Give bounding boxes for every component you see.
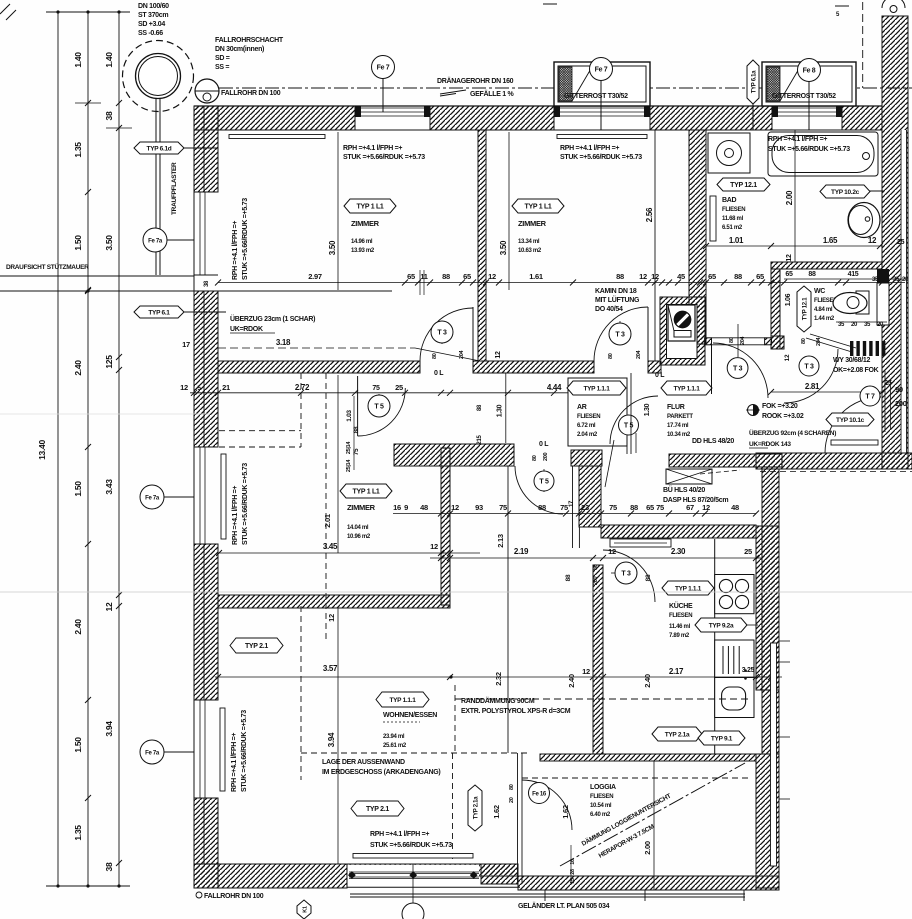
schacht stem	[155, 98, 157, 275]
svg-text:3.50: 3.50	[499, 240, 508, 255]
svg-text:25: 25	[897, 239, 905, 246]
svg-text:TYP 10.1c: TYP 10.1c	[836, 417, 865, 424]
wall kitchen right thick part	[756, 526, 779, 690]
kitchen counter edge	[714, 539, 716, 754]
svg-text:17.74 ml: 17.74 ml	[667, 423, 689, 429]
svg-text:12: 12	[651, 272, 659, 281]
svg-text:88: 88	[565, 574, 572, 581]
zimmer1 curtain bar	[229, 135, 325, 139]
svg-text:12: 12	[495, 351, 502, 359]
svg-text:125: 125	[104, 355, 114, 369]
circle top right corner	[882, 0, 905, 8]
wall bathroom left	[689, 130, 706, 344]
svg-text:14.96 ml: 14.96 ml	[351, 239, 373, 245]
svg-text:75: 75	[560, 503, 568, 512]
fok rook text	[748, 405, 759, 416]
svg-text:13.40: 13.40	[37, 440, 47, 460]
svg-text:3.57: 3.57	[323, 664, 338, 673]
svg-text:80: 80	[432, 353, 438, 359]
svg-text:88: 88	[734, 272, 742, 281]
svg-text:12: 12	[180, 383, 188, 392]
svg-text:TYP 2.1a: TYP 2.1a	[473, 796, 479, 819]
svg-text:OK=+2.08 FOK: OK=+2.08 FOK	[833, 367, 879, 374]
wc dim line	[784, 278, 905, 280]
svg-text:35: 35	[838, 322, 845, 328]
right wall small ticks	[779, 640, 790, 642]
svg-text:25|14: 25|14	[346, 459, 352, 473]
circle Fe7a window2	[164, 496, 194, 498]
svg-text:FLUR: FLUR	[667, 404, 685, 411]
svg-text:GITTERROST T30/52: GITTERROST T30/52	[564, 93, 628, 100]
svg-text:MIT LÜFTUNG: MIT LÜFTUNG	[595, 295, 640, 304]
svg-text:12: 12	[488, 272, 496, 281]
typ2.1 flag upper	[230, 638, 283, 653]
svg-text:ST 370cm: ST 370cm	[138, 12, 168, 19]
svg-text:200: 200	[895, 399, 907, 408]
svg-text:75: 75	[609, 503, 617, 512]
dim line y392	[190, 392, 570, 394]
fallrohr circle small	[195, 79, 219, 103]
svg-text:TYP 12.1: TYP 12.1	[802, 297, 808, 320]
wall right lower (kitchen side)	[762, 469, 779, 754]
svg-text:T 3: T 3	[621, 571, 631, 578]
wc flag vertical	[797, 286, 811, 332]
left dim chain lines	[57, 12, 59, 886]
svg-text:25: 25	[395, 383, 403, 392]
wall rooms south segment a	[218, 361, 420, 373]
fallrohrschacht circle	[123, 41, 194, 112]
svg-text:Fe 7a: Fe 7a	[145, 751, 160, 757]
drain line (draenagerohr) dash-dot	[219, 87, 912, 89]
flag typ10.2c	[868, 190, 884, 192]
svg-text:88: 88	[645, 574, 652, 581]
svg-text:STUK =+5.66/RDUK =+5.73: STUK =+5.66/RDUK =+5.73	[343, 154, 425, 161]
svg-text:11.68 ml: 11.68 ml	[722, 216, 744, 222]
bad vdim	[794, 130, 796, 262]
corridor door T5 arc	[515, 466, 563, 514]
svg-text:2.17: 2.17	[669, 667, 684, 676]
main dim line y282	[218, 282, 905, 284]
bathtub	[768, 132, 878, 176]
flag typ10.1c	[826, 413, 874, 426]
svg-text:ZIMMER: ZIMMER	[351, 219, 380, 228]
svg-text:88: 88	[616, 272, 624, 281]
wall south band right	[756, 453, 912, 469]
svg-text:38: 38	[204, 280, 210, 287]
svg-text:STUK =+5.66/RDUK =+5.73: STUK =+5.66/RDUK =+5.73	[560, 154, 642, 161]
wall wc south stub	[771, 336, 784, 349]
svg-text:STUK =+5.66/RDUK =+5.73: STUK =+5.66/RDUK =+5.73	[768, 146, 850, 153]
svg-text:1.61: 1.61	[529, 272, 543, 281]
fallrohr dn100 bottom	[196, 892, 202, 898]
svg-text:67: 67	[686, 503, 694, 512]
window top wall over bathroom	[772, 107, 842, 109]
svg-text:TYP 2.1a: TYP 2.1a	[665, 732, 690, 739]
svg-text:12: 12	[451, 503, 459, 512]
svg-text:WOHNEN/ESSEN: WOHNEN/ESSEN	[383, 712, 437, 719]
corner dashes top-left	[0, 4, 10, 14]
wall kitchen left	[593, 565, 603, 754]
svg-text:2.72: 2.72	[295, 383, 310, 392]
svg-text:WY 30/68/12: WY 30/68/12	[833, 357, 870, 364]
svg-text:7.89 m2: 7.89 m2	[669, 633, 690, 639]
svg-text:Fe 7: Fe 7	[377, 65, 390, 72]
svg-text:TYP 9.1: TYP 9.1	[711, 736, 733, 743]
svg-text:Fe 7a: Fe 7a	[148, 239, 163, 245]
door T7	[825, 397, 881, 453]
svg-text:ROOK =+3.02: ROOK =+3.02	[762, 413, 804, 420]
svg-text:ZIMMER: ZIMMER	[347, 503, 376, 512]
vestibule door wall	[705, 338, 712, 345]
kitchen niche bar	[610, 539, 671, 547]
svg-text:3.50: 3.50	[328, 240, 337, 255]
svg-text:2.01: 2.01	[323, 514, 332, 528]
stuetzmauer lines	[0, 275, 194, 277]
svg-text:80: 80	[593, 564, 599, 570]
zimmer1 flag	[344, 199, 396, 213]
circle Fe7 left	[382, 78, 384, 112]
kitchen door T3	[603, 550, 655, 602]
90/200 labels	[890, 380, 892, 430]
svg-text:2.04 m2: 2.04 m2	[577, 432, 598, 438]
circle Fe7 on gitterrost1	[600, 80, 602, 130]
svg-text:2.40: 2.40	[567, 674, 576, 688]
flags typ2.1a and typ9.1	[652, 727, 702, 741]
svg-text:TRAUFPFLASTER: TRAUFPFLASTER	[171, 162, 178, 215]
svg-text:TYP 10.2c: TYP 10.2c	[831, 189, 860, 196]
svg-text:TYP 2.1: TYP 2.1	[366, 806, 389, 813]
svg-text:STUK =+5.66/RDUK =+5.73: STUK =+5.66/RDUK =+5.73	[242, 463, 249, 545]
dashed construction lines upper	[219, 430, 301, 432]
vertical dash line above gitterrost2	[862, 2, 864, 88]
svg-text:RANDDÄMMUNG 90CM: RANDDÄMMUNG 90CM	[461, 697, 535, 705]
faint scan fold lines	[0, 591, 912, 593]
svg-text:FLIESEN: FLIESEN	[590, 794, 613, 800]
svg-text:DO 40/54: DO 40/54	[595, 306, 623, 313]
stairs stripes	[850, 341, 885, 356]
svg-text:1.50: 1.50	[73, 235, 83, 251]
wohnen curtain bar	[353, 854, 473, 859]
chimney block	[660, 297, 705, 365]
svg-text:1.50: 1.50	[73, 737, 83, 753]
svg-text:2.13: 2.13	[496, 534, 505, 548]
zimmer2 flag	[512, 199, 564, 213]
zimmer2 curtain bar	[557, 135, 647, 139]
FLUR labels	[661, 381, 712, 395]
chimney fan box	[668, 305, 695, 341]
svg-text:16: 16	[393, 503, 401, 512]
svg-text:88: 88	[477, 404, 483, 411]
wall rooms south segment b	[473, 361, 594, 373]
thin double wall left of kitchen entry	[572, 466, 574, 548]
window left wall 1	[199, 192, 201, 275]
svg-text:12: 12	[639, 272, 647, 281]
svg-text:3.94: 3.94	[104, 721, 114, 737]
svg-text:16: 16	[570, 859, 576, 865]
small top tick marks	[543, 3, 557, 5]
svg-text:1.50: 1.50	[73, 481, 83, 497]
svg-text:FOK =+3.20: FOK =+3.20	[762, 403, 798, 410]
svg-text:65: 65	[708, 272, 716, 281]
svg-text:T 3: T 3	[615, 332, 625, 339]
svg-text:3.18: 3.18	[276, 338, 291, 347]
svg-text:FALLROHR DN 100: FALLROHR DN 100	[221, 90, 281, 97]
svg-text:6.51 m2: 6.51 m2	[722, 225, 743, 231]
svg-text:3.45: 3.45	[323, 542, 338, 551]
svg-text:SS =: SS =	[215, 64, 229, 71]
dim 2.81 line	[771, 391, 882, 393]
svg-text:65: 65	[407, 272, 415, 281]
svg-text:STUK =+5.66/RDUK =+5.73: STUK =+5.66/RDUK =+5.73	[241, 710, 248, 792]
black box right of wc	[877, 269, 889, 283]
svg-text:20: 20	[851, 322, 858, 328]
svg-text:12: 12	[702, 503, 710, 512]
wall bottom thin segment	[347, 864, 518, 876]
svg-text:88: 88	[630, 503, 638, 512]
door zimmer2 leaf and arc	[647, 307, 649, 361]
svg-text:SD =: SD =	[215, 55, 230, 62]
dishwasher	[715, 640, 754, 678]
svg-text:RPH =+4.1 l/FPH =+: RPH =+4.1 l/FPH =+	[560, 145, 619, 152]
svg-text:23: 23	[581, 503, 589, 512]
svg-text:10.96 m2: 10.96 m2	[347, 534, 371, 540]
svg-text:FALLROHRSCHACHT: FALLROHRSCHACHT	[215, 37, 284, 44]
loggia door Fe16	[522, 780, 572, 830]
wall rooms south segment c	[648, 361, 661, 373]
svg-text:T 7: T 7	[865, 394, 875, 401]
svg-text:2.32: 2.32	[494, 672, 503, 686]
svg-text:4.44: 4.44	[547, 383, 562, 392]
svg-text:DRAUFSICHT STÜTZMAUER: DRAUFSICHT STÜTZMAUER	[6, 262, 89, 271]
window bottom wall (wohnen)	[348, 865, 480, 887]
svg-text:3.50: 3.50	[104, 235, 114, 251]
svg-text:RPH =+4.1 l/FPH =+: RPH =+4.1 l/FPH =+	[343, 145, 402, 152]
svg-text:6.72 ml: 6.72 ml	[577, 423, 596, 429]
svg-text:DD HLS 48/20: DD HLS 48/20	[692, 438, 734, 445]
wall bottom thick segment	[194, 864, 347, 888]
wall left exterior bottom segment	[194, 798, 218, 888]
svg-text:T 3: T 3	[804, 364, 814, 371]
svg-text:RPH =+4.1 l/FPH =+: RPH =+4.1 l/FPH =+	[232, 486, 239, 545]
svg-text:12: 12	[430, 542, 438, 551]
3.18 dim	[218, 347, 415, 349]
svg-text:1.40: 1.40	[73, 52, 83, 68]
svg-text:204: 204	[636, 349, 642, 359]
svg-text:20: 20	[509, 797, 515, 803]
svg-text:DRÄNAGEROHR DN 160: DRÄNAGEROHR DN 160	[437, 77, 514, 85]
svg-text:3.94: 3.94	[327, 732, 336, 747]
svg-text:GELÄNDER LT. PLAN 505 034: GELÄNDER LT. PLAN 505 034	[518, 902, 610, 910]
svg-text:T 5: T 5	[624, 423, 634, 430]
svg-text:LOGGIA: LOGGIA	[590, 784, 616, 791]
svg-text:TYP 1.1.1: TYP 1.1.1	[389, 697, 416, 704]
svg-text:12: 12	[327, 614, 336, 622]
bad heater	[710, 196, 716, 241]
svg-text:Fe 16: Fe 16	[532, 792, 547, 798]
svg-text:UK=RDOK: UK=RDOK	[230, 326, 263, 333]
svg-text:T 3: T 3	[437, 330, 447, 337]
svg-text:45: 45	[677, 272, 685, 281]
svg-text:415: 415	[848, 271, 859, 278]
svg-text:SD +3.04: SD +3.04	[138, 21, 165, 28]
wall zimmer3 south	[218, 595, 450, 608]
svg-text:10.54 ml: 10.54 ml	[590, 803, 612, 809]
svg-text:35: 35	[864, 322, 871, 328]
wall left exterior upper segment	[194, 106, 218, 192]
wall flur south	[669, 454, 782, 467]
svg-text:TYP 2.1: TYP 2.1	[245, 643, 268, 650]
zimmer3 flag	[340, 484, 392, 498]
wall corridor segment b	[571, 450, 602, 466]
dim line y558	[430, 557, 762, 559]
svg-text:TYP 1.1.1: TYP 1.1.1	[673, 386, 700, 393]
white slot in loggia right wall	[771, 643, 777, 866]
svg-text:12: 12	[104, 602, 114, 611]
svg-text:Fe 7a: Fe 7a	[145, 496, 160, 502]
wall zimmer3 right	[441, 448, 450, 605]
svg-text:25|14: 25|14	[346, 441, 352, 455]
svg-text:1.35: 1.35	[73, 142, 83, 158]
typ2.1a vertical flag	[468, 785, 482, 831]
svg-text:T 5: T 5	[539, 479, 549, 486]
gitterrost 2 box	[762, 62, 856, 106]
stove	[715, 575, 754, 614]
svg-text:10.63 m2: 10.63 m2	[518, 248, 542, 254]
svg-text:FALLROHR DN 100: FALLROHR DN 100	[204, 893, 264, 900]
svg-text:0 L: 0 L	[655, 372, 665, 379]
svg-text:15: 15	[570, 878, 576, 884]
svg-text:2.30: 2.30	[671, 547, 686, 556]
svg-text:93: 93	[475, 503, 483, 512]
svg-text:65: 65	[756, 272, 764, 281]
loggia diagonal dash-dot	[560, 763, 745, 866]
svg-text:3.43: 3.43	[104, 479, 114, 495]
bad dim line	[706, 245, 882, 247]
AR door arc (T5)	[610, 396, 658, 444]
wall right exterior tall	[882, 16, 908, 469]
svg-text:RPH =+4.1 l/FPH =+: RPH =+4.1 l/FPH =+	[370, 831, 429, 838]
svg-text:1.40: 1.40	[104, 52, 114, 68]
flag typ 6.1	[182, 311, 226, 313]
svg-text:90: 90	[895, 385, 903, 394]
wall kitchen north	[601, 525, 756, 538]
svg-text:2.19: 2.19	[514, 547, 529, 556]
typ 6.1a vertical flag	[752, 100, 754, 130]
svg-text:1.35: 1.35	[73, 825, 83, 841]
left wall joint line	[203, 106, 205, 192]
svg-text:1.01: 1.01	[729, 236, 744, 245]
svg-text:2.40: 2.40	[643, 674, 652, 688]
wall left exterior segment 2	[194, 291, 218, 447]
svg-text:48: 48	[420, 503, 428, 512]
svg-text:GEFÄLLE 1 %: GEFÄLLE 1 %	[470, 90, 514, 98]
wall bottom block at loggia door	[481, 864, 518, 884]
door zimmer3 (T5)	[357, 376, 359, 436]
svg-text:DN 30cm(innen): DN 30cm(innen)	[215, 46, 264, 53]
svg-text:2.97: 2.97	[308, 272, 322, 281]
svg-text:204: 204	[740, 335, 746, 345]
rotated 1.30 labels	[505, 373, 507, 443]
zimmer2 vdim	[508, 132, 510, 290]
svg-text:K1: K1	[302, 906, 308, 913]
svg-text:ÜBERZUG 23cm (1 SCHAR): ÜBERZUG 23cm (1 SCHAR)	[230, 314, 315, 323]
svg-text:75: 75	[499, 503, 507, 512]
heater window3	[220, 708, 225, 791]
svg-text:13.34 ml: 13.34 ml	[518, 239, 540, 245]
slope symbol	[440, 90, 466, 94]
svg-text:AR: AR	[577, 404, 587, 411]
svg-text:RPH =+4.1 l/FPH =+: RPH =+4.1 l/FPH =+	[231, 733, 238, 792]
kueche flag	[662, 581, 714, 595]
svg-text:RPH =+4.1 l/FPH =+: RPH =+4.1 l/FPH =+	[768, 136, 827, 143]
svg-text:TYP 6.1: TYP 6.1	[148, 310, 170, 317]
svg-text:200: 200	[593, 576, 599, 585]
svg-text:12: 12	[582, 667, 590, 676]
svg-text:T 5: T 5	[374, 404, 384, 411]
wohnen flag	[376, 692, 429, 707]
svg-text:KÜCHE: KÜCHE	[669, 601, 693, 610]
svg-text:0 L: 0 L	[539, 441, 549, 448]
zimmer1 vdim	[337, 132, 339, 290]
svg-text:PARKETT: PARKETT	[667, 414, 693, 420]
svg-text:10.34 m2: 10.34 m2	[667, 432, 691, 438]
circle Fe7a window3	[164, 751, 194, 753]
svg-text:DASP HLS 87/20/5cm: DASP HLS 87/20/5cm	[663, 497, 728, 504]
svg-text:TYP 12.1: TYP 12.1	[730, 182, 757, 189]
left dim chain ticks	[85, 100, 91, 106]
window slot inside right wall	[901, 130, 908, 453]
svg-text:75: 75	[372, 385, 380, 392]
svg-text:65: 65	[463, 272, 471, 281]
dim 3.45 line	[219, 552, 480, 554]
svg-text:ZIMMER: ZIMMER	[518, 219, 547, 228]
svg-text:14.04 ml: 14.04 ml	[347, 525, 369, 531]
kitchen sink	[715, 678, 754, 718]
svg-text:TYP 6.1d: TYP 6.1d	[147, 146, 172, 153]
wall left exterior segment 3	[194, 544, 218, 700]
svg-text:215: 215	[477, 434, 483, 444]
svg-text:2.00: 2.00	[785, 190, 794, 205]
svg-text:TYP 1 L1: TYP 1 L1	[524, 204, 551, 211]
svg-text:TYP 1.1.1: TYP 1.1.1	[675, 586, 702, 593]
gitterrost 1 box	[554, 62, 650, 106]
sill bar bottom right	[831, 440, 878, 445]
dashed line below south band	[760, 471, 912, 473]
svg-text:FLIESEN: FLIESEN	[669, 613, 692, 619]
svg-text:Fe 8: Fe 8	[803, 68, 816, 75]
svg-text:KAMIN DN 18: KAMIN DN 18	[595, 288, 637, 295]
svg-text:2.00: 2.00	[643, 841, 652, 855]
window top wall over zimmer1	[355, 107, 430, 109]
svg-text:80: 80	[509, 784, 515, 790]
svg-text:EXTR. POLYSTYROL XPS-R d=3CM: EXTR. POLYSTYROL XPS-R d=3CM	[461, 708, 571, 715]
svg-text:2.40: 2.40	[73, 619, 83, 635]
flag typ9.2a	[745, 624, 758, 626]
svg-text:TYP 1 L1: TYP 1 L1	[352, 489, 379, 496]
svg-text:17: 17	[569, 500, 575, 507]
svg-text:IM ERDGESCHOSS (ARKADENGANG): IM ERDGESCHOSS (ARKADENGANG)	[322, 769, 440, 776]
svg-text:BAD: BAD	[722, 197, 737, 204]
svg-text:FLIESEN: FLIESEN	[722, 207, 745, 213]
bad flag	[717, 178, 770, 191]
heater window2	[221, 454, 226, 539]
svg-text:T 3: T 3	[733, 366, 743, 373]
svg-text:80: 80	[801, 338, 807, 344]
svg-text:TYP 9.2a: TYP 9.2a	[709, 623, 734, 630]
svg-text:FLIESEN: FLIESEN	[577, 414, 600, 420]
svg-text:21: 21	[222, 383, 230, 392]
svg-text:1.65: 1.65	[823, 236, 838, 245]
